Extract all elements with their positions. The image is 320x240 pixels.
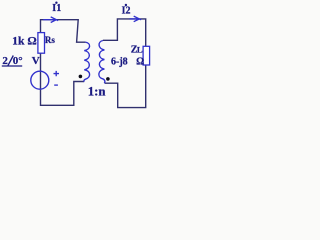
resistor Rs body [38,33,45,54]
wire: right loop bottom (right coil bottom to load bottom) [105,65,146,108]
underline of angle [2,65,22,67]
svg-text:1k Ω: 1k Ω [12,35,37,48]
voltage source minus sign [54,84,58,86]
phasor dot over I1 [55,2,57,4]
svg-text:L: L [137,45,143,55]
svg-text:V: V [32,55,40,67]
polarity dot right coil [106,77,110,81]
angle slash [8,56,13,66]
svg-text:I1: I1 [52,3,61,14]
wire: right loop top (right coil top to load top) [103,19,146,47]
svg-text:0°: 0° [13,55,23,67]
arrowhead I1 [43,17,58,23]
wire: left loop bottom (resistor bottom through source to left coil bottom) [41,53,85,105]
svg-text:Ω: Ω [136,57,144,68]
svg-text:Rs: Rs [45,35,55,45]
polarity dot left coil [79,75,83,79]
svg-text:6-j8: 6-j8 [111,57,128,68]
transformer left coil L1 [84,42,90,81]
arrowhead I2 [130,16,142,22]
phasor dot over I2 [125,4,127,6]
load impedance ZL body [143,46,150,65]
svg-text:I2: I2 [122,6,131,17]
svg-text:1:n: 1:n [88,85,106,99]
transformer right coil L2 [99,41,105,84]
wire: left loop top (source top to left coil top) [41,20,86,43]
voltage source plus sign [54,71,60,76]
voltage source V1 circle [31,71,49,89]
